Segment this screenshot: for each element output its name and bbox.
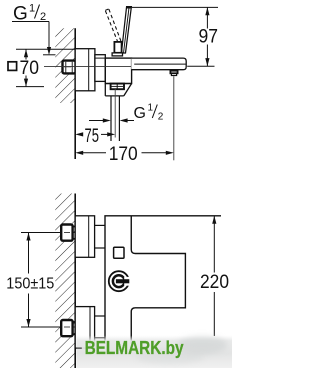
svg-text:220: 220 xyxy=(200,272,229,293)
aerator (side view) xyxy=(170,71,177,76)
outlet union cross box (side view) xyxy=(111,84,124,90)
svg-text:1: 1 xyxy=(29,3,35,15)
dimension 220 xyxy=(200,216,229,336)
spout (side view) xyxy=(131,58,186,70)
stub connector 2 (bottom view) xyxy=(95,316,105,338)
svg-text:G: G xyxy=(134,105,146,122)
union nut (side view) xyxy=(95,55,105,82)
svg-text:170: 170 xyxy=(109,144,138,165)
eco button square (bottom view) xyxy=(114,247,124,258)
faucet outline (bottom view) xyxy=(105,216,221,344)
outlet pipe G1/2 (side view) xyxy=(111,89,119,141)
wall hatch (top view) xyxy=(55,28,75,103)
handle base (side view) xyxy=(112,42,122,56)
svg-text:1: 1 xyxy=(148,103,154,114)
watermark bar xyxy=(75,336,232,368)
axis line fitting 1 (bottom view) xyxy=(21,232,75,234)
lever handle solid (side view) xyxy=(121,7,131,53)
svg-text:97: 97 xyxy=(199,27,219,48)
wall face line (bottom view) xyxy=(74,194,76,368)
svg-text:BELMARK.by: BELMARK.by xyxy=(85,338,184,359)
dimension 97 (right) xyxy=(132,7,218,66)
dimension 70 (square rosette) xyxy=(8,49,75,86)
in-wall union fitting 1 (bottom view) xyxy=(61,225,75,241)
svg-text:70: 70 xyxy=(20,58,40,79)
shower outlet drop (side view) xyxy=(105,84,131,96)
svg-text:75: 75 xyxy=(85,126,100,147)
stub connector 1 (bottom view) xyxy=(95,225,105,248)
faucet body (side view) xyxy=(105,58,131,83)
dimension 75 xyxy=(75,126,115,147)
in-wall union fitting 2 (bottom view) xyxy=(61,320,75,336)
escutcheon square rosette (side view) xyxy=(75,49,95,91)
dimension 170 xyxy=(75,144,174,165)
axis line fitting 2 (bottom view) xyxy=(21,326,75,328)
dimension G1/2 (bottom outlet thread) xyxy=(89,103,164,123)
pipe axis line (top view) xyxy=(44,66,131,68)
GROHE logo (bottom view) xyxy=(109,271,132,291)
aerator extension line (170 dim right reference) xyxy=(173,76,175,160)
escutcheon 1 (bottom view) xyxy=(75,216,94,257)
svg-text:2: 2 xyxy=(158,112,164,123)
wall hatch (bottom view) xyxy=(55,194,75,368)
dimension 150±15 xyxy=(6,233,61,328)
wall face line (top view) xyxy=(74,28,76,159)
escutcheon 2 (bottom view) xyxy=(75,307,94,349)
G1/2 label top-left with leader xyxy=(12,3,56,56)
in-wall union fitting (top view) xyxy=(63,61,76,74)
lever handle alternate position dashed (side view) xyxy=(105,9,121,42)
svg-text:150±15: 150±15 xyxy=(6,276,54,293)
